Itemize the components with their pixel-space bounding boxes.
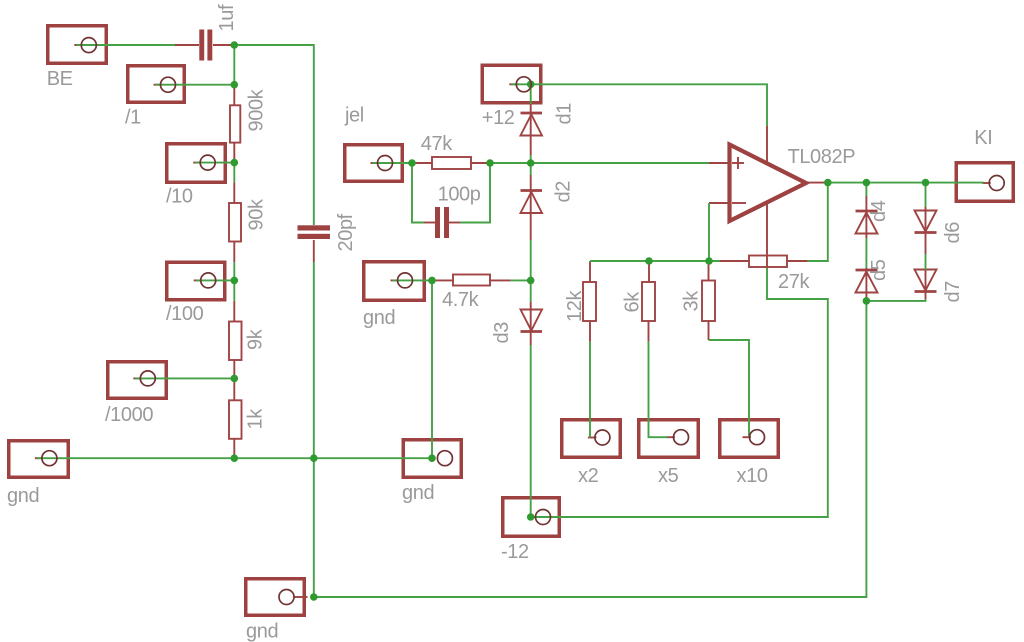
svg-text:d7: d7 xyxy=(942,281,964,303)
svg-text:3k: 3k xyxy=(680,290,702,312)
svg-text:6k: 6k xyxy=(621,291,643,313)
svg-text:47k: 47k xyxy=(421,133,453,155)
svg-text:9k: 9k xyxy=(245,328,267,350)
svg-text:gnd: gnd xyxy=(363,307,395,329)
svg-text:x10: x10 xyxy=(737,465,768,487)
svg-text:TL082P: TL082P xyxy=(788,146,856,168)
svg-text:BE: BE xyxy=(47,68,73,90)
svg-text:-12: -12 xyxy=(501,541,529,563)
svg-text:27k: 27k xyxy=(778,271,810,293)
svg-text:+12: +12 xyxy=(482,107,515,129)
svg-text:d4: d4 xyxy=(868,200,890,222)
svg-text:x2: x2 xyxy=(578,465,599,487)
svg-text:90k: 90k xyxy=(246,198,268,230)
svg-text:gnd: gnd xyxy=(402,482,434,504)
svg-text:d2: d2 xyxy=(553,181,575,203)
svg-text:d5: d5 xyxy=(868,259,890,281)
svg-text:4.7k: 4.7k xyxy=(442,289,480,311)
svg-text:gnd: gnd xyxy=(7,485,39,507)
svg-text:1k: 1k xyxy=(245,408,267,430)
svg-text:jel: jel xyxy=(344,105,364,127)
svg-text:gnd: gnd xyxy=(246,621,278,642)
svg-text:12k: 12k xyxy=(564,290,586,322)
svg-text:20pf: 20pf xyxy=(335,213,357,251)
svg-text:/100: /100 xyxy=(166,303,204,325)
svg-text:d6: d6 xyxy=(942,222,964,244)
svg-text:100p: 100p xyxy=(438,183,481,205)
svg-text:/1: /1 xyxy=(125,107,141,129)
svg-text:900k: 900k xyxy=(246,88,268,131)
svg-text:d3: d3 xyxy=(491,322,513,344)
svg-text:/10: /10 xyxy=(166,186,193,208)
svg-text:x5: x5 xyxy=(658,465,679,487)
svg-text:d1: d1 xyxy=(554,103,576,125)
svg-text:KI: KI xyxy=(974,127,992,149)
svg-text:/1000: /1000 xyxy=(105,404,153,426)
svg-text:1uf: 1uf xyxy=(216,4,238,31)
